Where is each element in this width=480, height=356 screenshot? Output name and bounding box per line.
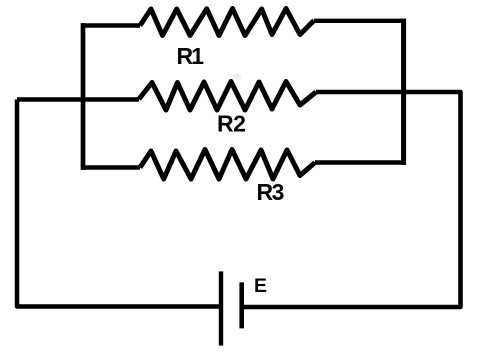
wire: R1 left lead xyxy=(81,23,140,27)
svg-text:E: E xyxy=(254,275,267,297)
svg-text:R3: R3 xyxy=(257,179,284,205)
wire: left outer branch down and bottom to battery positive xyxy=(17,100,221,307)
wire: R3 right lead to right bus xyxy=(315,160,406,164)
wire: R3 left lead xyxy=(81,165,140,169)
resistor R3 xyxy=(140,150,315,180)
wire: R2 right lead, right outer branch down and bottom to battery negative xyxy=(242,92,461,307)
battery E positive plate (long) xyxy=(219,271,223,345)
svg-text:R2: R2 xyxy=(217,111,245,137)
resistor R2 xyxy=(139,82,316,111)
smudge artifact xyxy=(233,74,242,81)
battery E negative plate (short) xyxy=(239,282,244,328)
resistor R1 xyxy=(140,9,314,36)
wire: left vertical bus joining R1,R2,R3 left ends xyxy=(81,26,86,168)
svg-text:R1: R1 xyxy=(177,43,205,69)
wire: right vertical bus joining R1,R2,R3 right ends xyxy=(401,21,406,163)
wire: R1 right lead to right bus xyxy=(314,19,406,23)
wire: R2 left lead from left branch xyxy=(17,97,139,101)
